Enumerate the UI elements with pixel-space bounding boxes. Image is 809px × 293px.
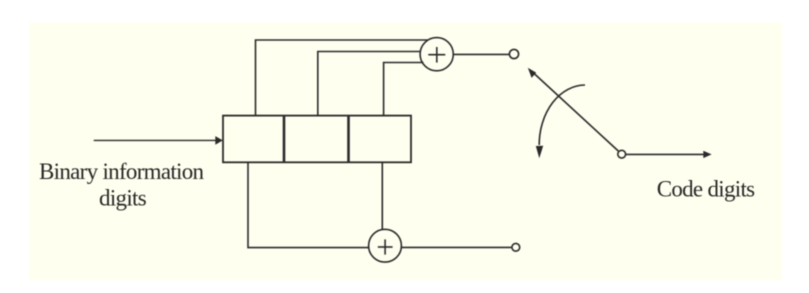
input wire xyxy=(94,139,219,141)
wire tap stage3 vertical xyxy=(384,63,424,116)
commutator arm wire xyxy=(533,73,618,152)
wire U2 to bottom terminal xyxy=(401,246,511,248)
wire tap stage3 bottom xyxy=(381,162,383,229)
mod-2 adder U2 (bottom) xyxy=(369,229,402,262)
wire U1 to top terminal xyxy=(453,53,509,55)
top terminal node xyxy=(509,49,518,58)
svg-text:Binary information: Binary information xyxy=(39,159,205,184)
wire tap stage1 vertical xyxy=(256,40,428,116)
register cell divider 2 xyxy=(347,116,350,163)
mod-2 adder U1 (top) xyxy=(420,38,453,71)
svg-text:Code digits: Code digits xyxy=(657,177,755,202)
wire tap stage1 bottom xyxy=(248,162,369,247)
register cell divider 1 xyxy=(283,116,286,163)
output wire xyxy=(626,153,704,155)
commutator sweep arc xyxy=(539,85,585,145)
commutator pivot node xyxy=(618,150,626,158)
svg-text:digits: digits xyxy=(99,186,147,211)
shift register box xyxy=(223,116,411,163)
wire tap stage2 vertical xyxy=(318,52,421,116)
input arrowhead xyxy=(215,136,223,145)
output arrowhead xyxy=(703,151,711,158)
commutator arm arrowhead xyxy=(528,68,536,78)
bottom terminal node xyxy=(512,243,520,251)
commutator sweep arrowhead xyxy=(536,146,543,159)
